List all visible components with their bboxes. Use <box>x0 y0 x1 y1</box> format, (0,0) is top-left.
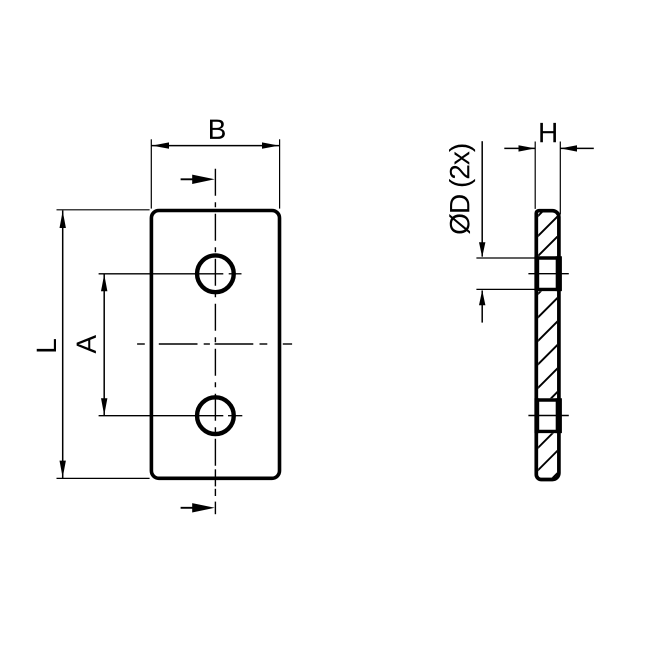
label D (rotated) <box>449 145 475 234</box>
label A (rotated) <box>77 335 96 354</box>
hatching band 3 (bottom section) <box>506 200 645 480</box>
plate outline (side view) <box>536 211 559 480</box>
dimension D line (lower) with arrowhead <box>481 291 483 323</box>
hole 1 horizontal centerline / A extension line <box>99 273 242 275</box>
label L (rotated) <box>37 339 56 351</box>
hole 2 axis tick (side view) <box>528 415 568 417</box>
dimension A line with arrowheads <box>103 274 105 416</box>
label B <box>210 120 225 139</box>
hole 1 bore walls (side view) <box>537 256 559 291</box>
dimension D extension lines <box>476 258 536 289</box>
dimension B extension lines <box>151 139 279 208</box>
dimension D line (upper) with arrowhead <box>481 141 483 256</box>
section arrow (bottom) <box>181 507 196 509</box>
dimension H lines with arrowheads (outside) <box>504 147 535 149</box>
hole 1 axis tick (side view) <box>528 273 568 275</box>
dimension L line with arrowheads <box>62 211 64 479</box>
hatching band 2 (middle section) <box>352 200 645 480</box>
hole 1 cut edges (side view) <box>535 258 561 289</box>
hole 1 (upper, front view) <box>197 255 234 292</box>
dimension B line with arrowheads <box>151 145 279 147</box>
vertical centerline (dash-dot) <box>214 169 216 466</box>
plate outline (front view) <box>151 211 279 479</box>
section arrow (top) <box>181 178 196 180</box>
dimension H extension lines <box>535 142 560 215</box>
hole 2 horizontal centerline / A extension line <box>99 415 243 417</box>
hole 2 bore walls (side view) <box>537 398 559 433</box>
label H <box>540 123 556 142</box>
hole 2 (lower, front view) <box>197 397 234 434</box>
hatching band 1 (top section) <box>274 200 594 480</box>
dimension L extension lines <box>57 210 150 479</box>
horizontal centerline (dash-dot) <box>137 343 292 345</box>
hole 2 cut edges (side view) <box>535 400 561 431</box>
